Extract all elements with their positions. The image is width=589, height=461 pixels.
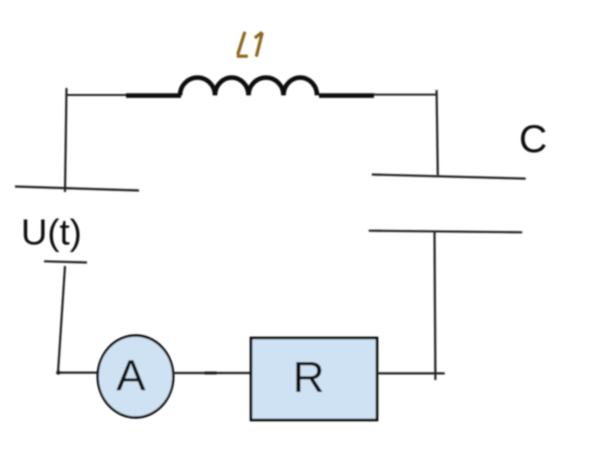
battery U(t) bottom plate	[44, 261, 87, 262]
wire top-right horizontal	[372, 94, 437, 96]
wire R to right corner	[377, 372, 445, 374]
wire left vertical lower	[58, 266, 65, 373]
ammeter A1	[98, 336, 174, 418]
wire left vertical upper	[65, 88, 67, 192]
node bottom-left junction	[56, 370, 60, 374]
capacitor C bottom plate	[369, 231, 523, 233]
wire top-left horizontal	[66, 94, 128, 96]
svg-text:A: A	[116, 352, 146, 401]
capacitor C top plate	[372, 175, 526, 179]
wire overlap dash	[205, 372, 217, 375]
inductor L1	[126, 78, 374, 96]
resistor R	[251, 338, 377, 420]
wire A to R	[174, 372, 252, 374]
svg-text:C: C	[519, 118, 547, 161]
label L1	[237, 32, 262, 57]
svg-text:R: R	[293, 353, 325, 402]
svg-text:U(t): U(t)	[21, 212, 82, 253]
wire bottom-left horizontal	[58, 372, 99, 374]
battery U(t) top plate	[15, 187, 139, 191]
wire right vertical lower	[433, 232, 436, 380]
wire right vertical upper	[437, 90, 438, 175]
